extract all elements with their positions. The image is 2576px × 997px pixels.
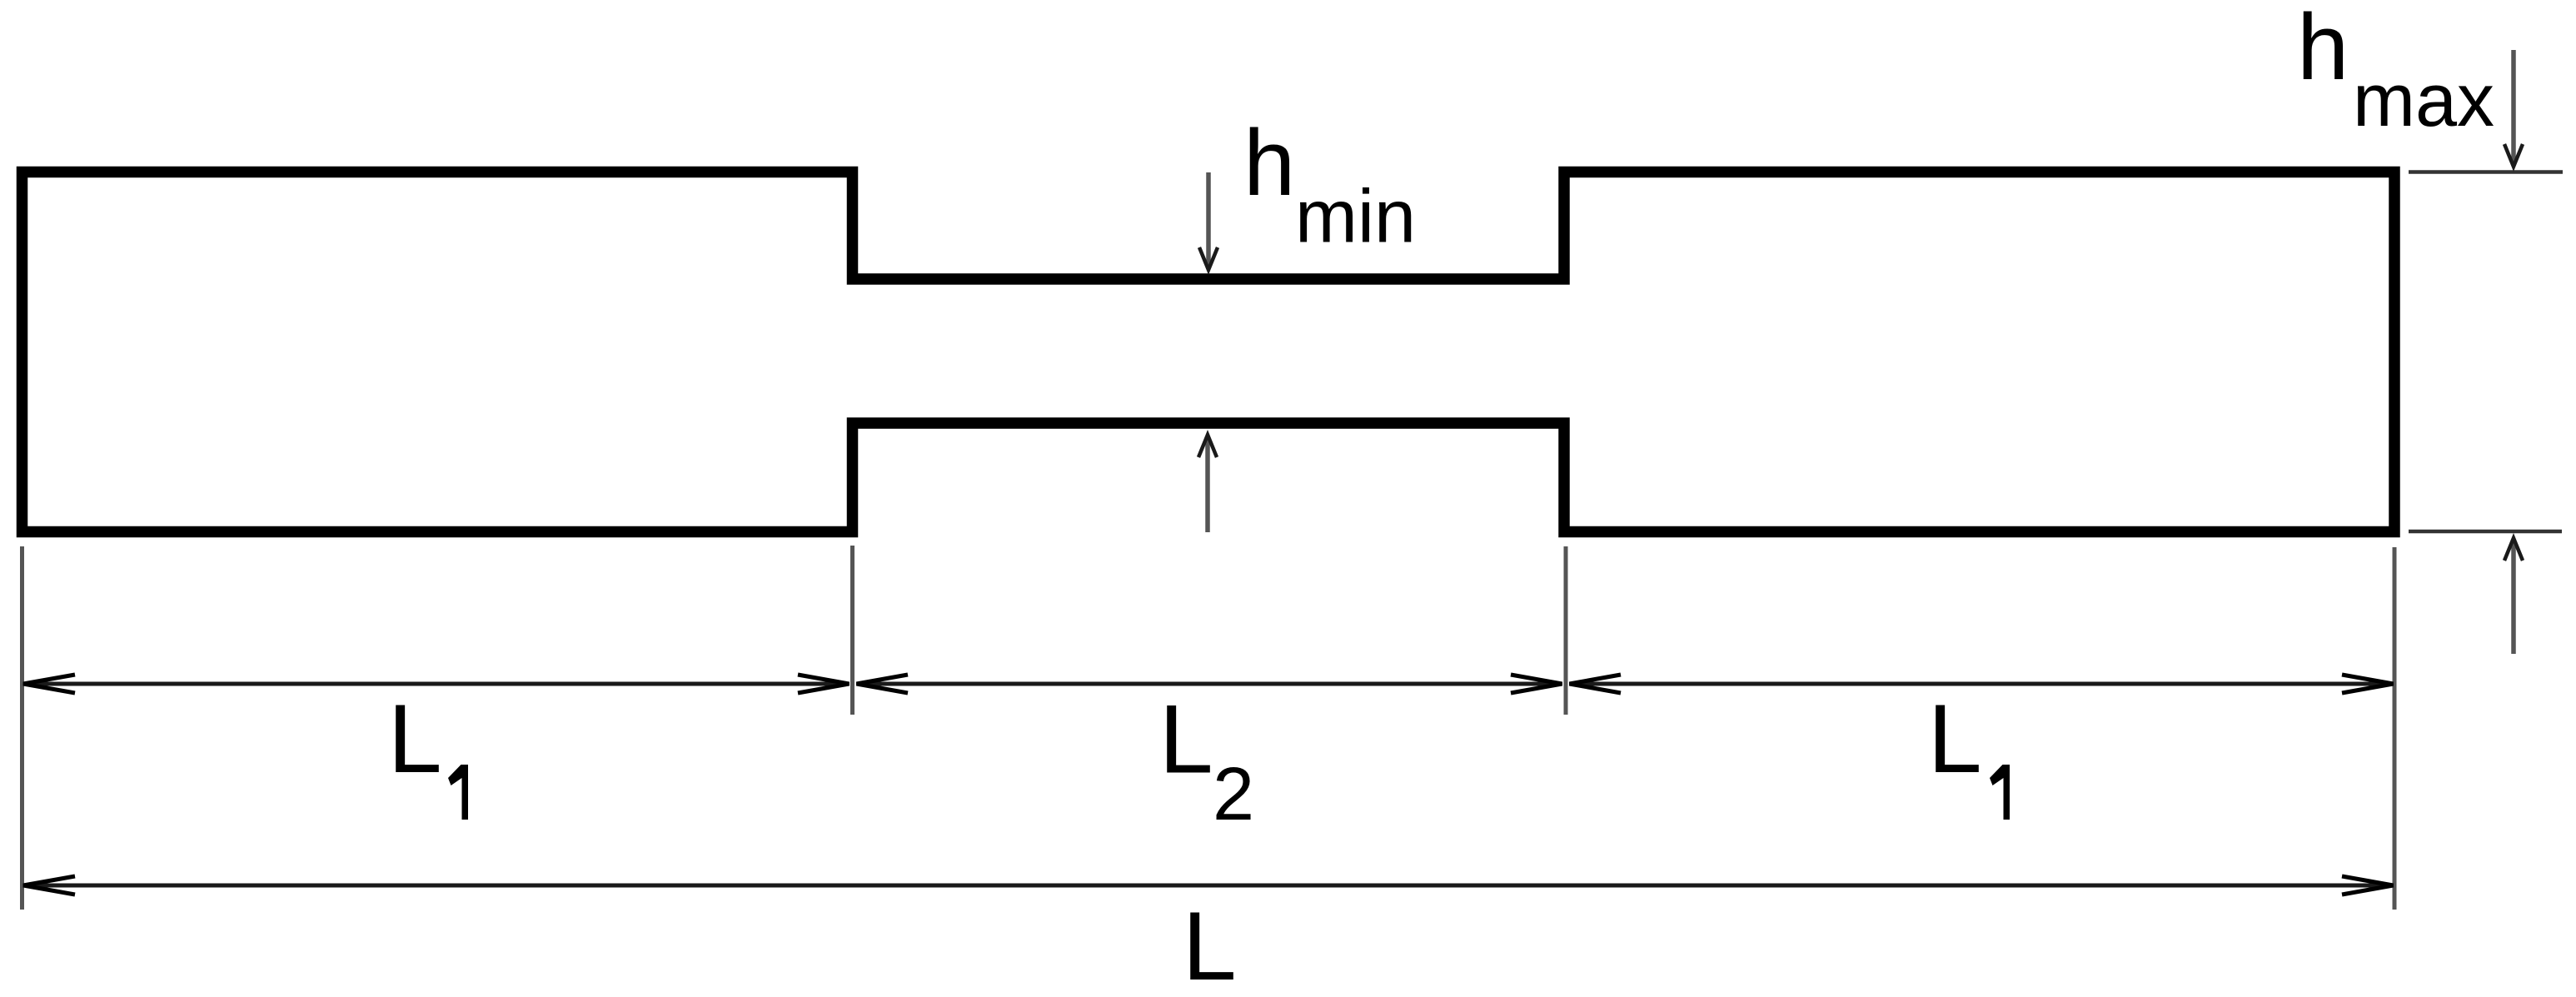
svg-text:L: L bbox=[1183, 891, 1237, 997]
svg-text:L: L bbox=[388, 684, 442, 793]
svg-text:L: L bbox=[1928, 684, 1982, 793]
svg-text:L: L bbox=[1159, 685, 1213, 794]
svg-text:2: 2 bbox=[1213, 753, 1254, 836]
svg-text:h: h bbox=[2297, 0, 2349, 99]
svg-text:h: h bbox=[1243, 111, 1295, 215]
svg-text:min: min bbox=[1295, 176, 1416, 259]
svg-text:max: max bbox=[2353, 59, 2494, 142]
